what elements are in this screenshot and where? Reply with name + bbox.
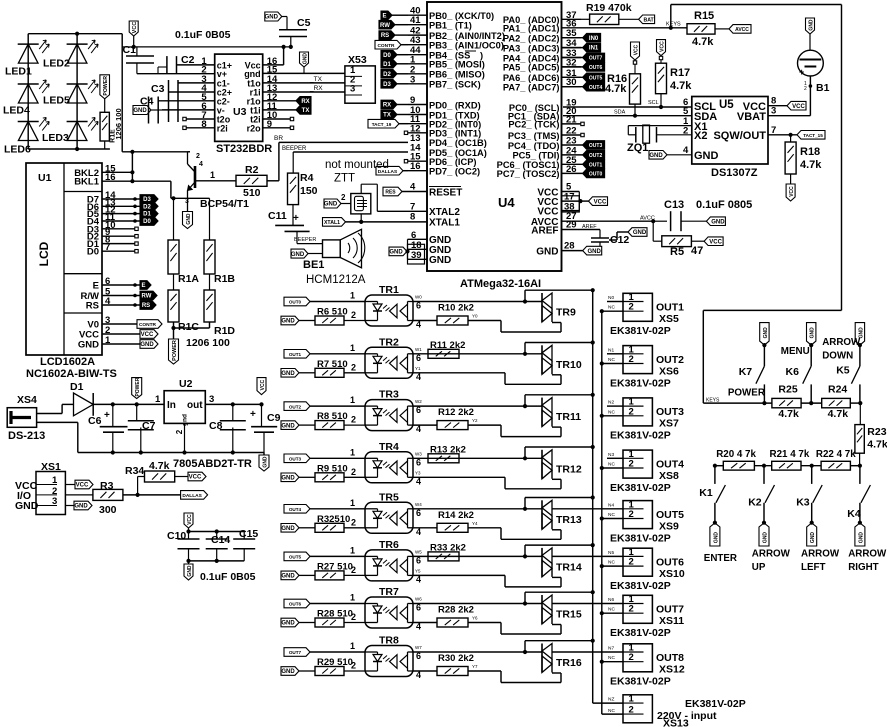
svg-text:VCC: VCC xyxy=(633,44,639,55)
svg-text:R5: R5 xyxy=(670,246,684,258)
svg-text:R23: R23 xyxy=(867,426,886,438)
optocoupler TR8 xyxy=(365,635,413,677)
svg-text:XS4: XS4 xyxy=(17,394,37,406)
svg-text:ARROW: ARROW xyxy=(848,549,887,560)
svg-text:GND: GND xyxy=(281,423,295,429)
svg-text:GND: GND xyxy=(187,565,193,577)
label 0.1uF 0805 xyxy=(696,199,752,211)
svg-text:39: 39 xyxy=(411,250,422,261)
svg-text:PC3_ (TMS): PC3_ (TMS) xyxy=(508,131,560,141)
svg-text:N7: N7 xyxy=(608,646,614,652)
svg-text:28: 28 xyxy=(564,241,575,252)
net tag D0 (PB4) xyxy=(381,50,408,59)
power tag AVCC (R15) xyxy=(715,25,751,34)
svg-text:2: 2 xyxy=(804,86,807,92)
wire TR14 T2 to bus xyxy=(525,543,595,556)
svg-text:C9: C9 xyxy=(267,412,281,424)
net tag RES (RESET) xyxy=(383,182,462,199)
U4 VCC pins 5/17/38 xyxy=(537,182,582,218)
power tag POWER (R1C) xyxy=(169,328,179,364)
svg-text:NC: NC xyxy=(608,462,615,468)
label EK381V-02P (XS5) xyxy=(610,325,671,337)
svg-text:EK381V-02P: EK381V-02P xyxy=(610,627,671,639)
svg-text:GND: GND xyxy=(302,53,308,65)
svg-text:BR: BR xyxy=(274,135,283,142)
svg-text:E: E xyxy=(93,281,99,292)
svg-text:PD4_ (OC1B): PD4_ (OC1B) xyxy=(429,138,487,148)
resistor R6 (R6 510) xyxy=(315,307,365,326)
svg-text:TR7: TR7 xyxy=(379,586,399,598)
LED LED3 xyxy=(42,118,98,144)
svg-text:XS13: XS13 xyxy=(663,718,689,727)
svg-text:2: 2 xyxy=(683,126,688,137)
ground tag GND (power rail) xyxy=(259,453,269,472)
svg-text:XTAL1: XTAL1 xyxy=(324,220,340,226)
wire XTAL1 pin xyxy=(408,212,460,229)
svg-text:1: 1 xyxy=(350,641,355,651)
label POWER (K7) xyxy=(728,387,765,398)
resistor R1C xyxy=(168,274,199,333)
triac TR10 xyxy=(542,345,582,374)
svg-text:C8: C8 xyxy=(209,420,223,432)
svg-text:NZ: NZ xyxy=(608,697,614,703)
label DS1307Z xyxy=(711,167,758,179)
svg-text:TR10: TR10 xyxy=(556,359,582,371)
wire TR16 T2 to bus xyxy=(525,639,595,652)
label ARROW RIGHT (K4) xyxy=(848,549,887,573)
svg-text:1: 1 xyxy=(210,170,215,180)
svg-text:2: 2 xyxy=(629,509,634,520)
svg-text:U3: U3 xyxy=(233,106,247,118)
svg-text:N6: N6 xyxy=(608,597,614,603)
wire TR2 pin6 xyxy=(413,347,542,363)
svg-text:ZTT: ZTT xyxy=(334,173,355,185)
speaker BE1 HCM1212A xyxy=(303,229,365,271)
svg-text:R20 4 7k: R20 4 7k xyxy=(716,449,756,460)
wire LED column left xyxy=(27,34,29,149)
resistor R10 (R10 2k2) xyxy=(437,303,474,326)
power tag VCC (R16) xyxy=(631,42,640,74)
svg-text:OUT3: OUT3 xyxy=(656,406,684,418)
svg-text:GND: GND xyxy=(78,340,99,351)
wire SDA xyxy=(563,106,692,117)
svg-text:C3: C3 xyxy=(151,83,165,95)
svg-text:R19 470k: R19 470k xyxy=(586,2,632,14)
net tag OUT7 (PA) xyxy=(562,53,605,62)
U1 pin names and numbers xyxy=(74,163,116,350)
svg-text:6: 6 xyxy=(416,405,421,415)
svg-text:TR15: TR15 xyxy=(556,609,582,621)
svg-text:2: 2 xyxy=(351,661,356,671)
U4 AVCC pin 27 xyxy=(531,211,655,228)
wire U1 data stub xyxy=(102,235,138,238)
connector XS11 (OUT7) xyxy=(552,594,652,623)
svg-text:2: 2 xyxy=(351,612,356,622)
svg-text:POWER: POWER xyxy=(135,377,141,396)
svg-text:D2: D2 xyxy=(383,72,391,78)
svg-text:29: 29 xyxy=(566,220,577,231)
ground tag GND (K2) xyxy=(759,523,769,546)
svg-text:LED3: LED3 xyxy=(42,132,69,144)
svg-text:OUT6: OUT6 xyxy=(589,65,603,71)
label ZTT xyxy=(334,173,355,185)
wire U2 out rail xyxy=(205,402,263,406)
wire U3 pin16 to VCC rail xyxy=(263,45,286,65)
svg-text:CONTR: CONTR xyxy=(377,43,395,49)
svg-text:NC: NC xyxy=(608,409,615,415)
net tag OUT5 (PA) xyxy=(562,73,605,82)
svg-text:GND: GND xyxy=(536,246,558,257)
capacitor C1 xyxy=(123,44,291,74)
svg-text:C7: C7 xyxy=(142,420,156,432)
svg-text:2: 2 xyxy=(629,652,634,663)
svg-text:TR12: TR12 xyxy=(556,463,582,475)
svg-text:NC1602A-BIW-TS: NC1602A-BIW-TS xyxy=(26,368,117,380)
svg-text:XS8: XS8 xyxy=(659,470,679,482)
triac TR15 xyxy=(542,595,582,624)
svg-text:R9 510: R9 510 xyxy=(317,463,348,474)
resistor R16 xyxy=(605,73,641,118)
wire TR4 pin6 xyxy=(413,451,542,467)
wire keys upper bus xyxy=(703,401,862,405)
svg-text:SCL: SCL xyxy=(648,100,659,106)
svg-text:3: 3 xyxy=(185,198,189,205)
svg-text:8: 8 xyxy=(410,212,415,223)
battery B1 xyxy=(798,50,830,94)
resistor R13 (R13 2k2) xyxy=(428,444,466,463)
svg-text:RX: RX xyxy=(301,99,309,105)
svg-text:OUT2: OUT2 xyxy=(656,354,684,366)
resistor R28 (R28 510) xyxy=(315,609,365,628)
wire U5 SQW pin7 xyxy=(768,125,797,137)
triac TR11 xyxy=(542,398,581,427)
svg-text:GND: GND xyxy=(265,15,279,21)
svg-text:PB2_ (AIN0/INT2): PB2_ (AIN0/INT2) xyxy=(429,31,505,41)
svg-text:OUT3: OUT3 xyxy=(589,143,603,149)
wire TR8 pin6 xyxy=(413,645,542,661)
resistor R30 (R30 2k2) xyxy=(437,653,474,676)
resistor R20 xyxy=(716,449,756,470)
svg-text:RS: RS xyxy=(142,303,150,309)
net tag OUT2 (PC) xyxy=(562,151,605,160)
svg-text:VCC: VCC xyxy=(132,22,138,34)
wire PD6 stub xyxy=(404,160,407,163)
power tag VCC (top) xyxy=(122,21,138,47)
svg-text:EK381V-02P: EK381V-02P xyxy=(610,377,671,389)
svg-text:E: E xyxy=(141,283,145,289)
resistor R4 xyxy=(288,152,318,205)
svg-text:EK381V-02P: EK381V-02P xyxy=(610,580,671,592)
net tag TX (PD1) xyxy=(381,110,408,119)
optocoupler TR4 xyxy=(365,441,413,483)
ground tag GND (U3 v-) xyxy=(133,106,162,115)
svg-text:DS-213: DS-213 xyxy=(8,430,45,442)
svg-text:GND: GND xyxy=(711,219,725,225)
resistor R32510 (R32510) xyxy=(315,514,365,533)
svg-text:GND: GND xyxy=(429,255,451,266)
voltage regulator U2 7805 xyxy=(164,378,214,453)
svg-text:Y6: Y6 xyxy=(472,616,478,621)
wire TR11 T2 to bus xyxy=(525,393,595,406)
svg-text:Y5: Y5 xyxy=(415,568,421,573)
svg-text:LEFT: LEFT xyxy=(801,562,826,573)
svg-text:N1: N1 xyxy=(608,347,614,353)
ground tag GND (C5) xyxy=(265,12,287,30)
svg-text:DALLAS: DALLAS xyxy=(378,169,398,175)
svg-text:OUT1: OUT1 xyxy=(656,302,684,314)
optocoupler TR2 xyxy=(365,336,413,378)
svg-text:D0: D0 xyxy=(87,247,99,258)
svg-text:GND: GND xyxy=(281,621,295,627)
svg-text:RX: RX xyxy=(383,103,391,109)
wire U3 pin5 xyxy=(158,100,215,102)
wire C10 top rail xyxy=(189,529,245,533)
svg-text:BKL1: BKL1 xyxy=(74,177,100,188)
power tag VCC (U4) xyxy=(580,197,607,206)
capacitor C4 xyxy=(140,96,158,124)
svg-text:PA5_ (ADC5): PA5_ (ADC5) xyxy=(503,63,560,73)
svg-text:4: 4 xyxy=(416,372,421,382)
svg-text:AVCC: AVCC xyxy=(735,27,749,33)
svg-text:1: 1 xyxy=(629,694,635,705)
svg-text:AREF: AREF xyxy=(582,224,597,230)
wire TR7 pin6 xyxy=(413,597,542,613)
label 0.1uF 0B05 xyxy=(175,29,231,41)
svg-text:EK381V-02P: EK381V-02P xyxy=(610,482,671,494)
svg-text:2: 2 xyxy=(351,415,356,425)
svg-text:N3: N3 xyxy=(608,452,614,458)
wire C11 to BE1 xyxy=(294,231,323,243)
svg-text:In: In xyxy=(167,400,176,411)
connector XS10 (OUT6) xyxy=(552,547,652,576)
wire TR6 pin6 xyxy=(413,549,542,565)
net tag BAT xyxy=(639,15,655,24)
optocoupler TR3 xyxy=(365,389,413,431)
power tag VCC (R18) xyxy=(786,174,795,201)
svg-text:R27 510: R27 510 xyxy=(317,561,353,572)
ground tag GND (ZTT) xyxy=(324,193,351,208)
svg-text:TR3: TR3 xyxy=(379,389,399,401)
svg-text:OUT5: OUT5 xyxy=(589,75,603,81)
svg-text:OUT4: OUT4 xyxy=(589,85,603,91)
svg-text:47: 47 xyxy=(691,245,703,257)
svg-text:LED4: LED4 xyxy=(3,105,30,117)
wire TR13 T2 to bus xyxy=(525,495,595,508)
triac TR14 xyxy=(542,548,582,577)
svg-text:4: 4 xyxy=(416,424,421,434)
U4 right PC pins xyxy=(497,98,585,180)
svg-text:R1C: R1C xyxy=(178,321,199,333)
svg-text:PB6_ (MISO): PB6_ (MISO) xyxy=(429,70,485,80)
svg-text:VCC: VCC xyxy=(594,199,607,205)
svg-text:6: 6 xyxy=(416,651,421,661)
net tag OUT3 (row 4) xyxy=(284,447,365,462)
svg-text:4.7k: 4.7k xyxy=(778,408,799,420)
svg-text:ARROW: ARROW xyxy=(822,337,861,348)
svg-text:2: 2 xyxy=(175,429,184,434)
optocoupler TR1 xyxy=(365,284,413,326)
power tag POWER (rail) xyxy=(132,377,142,398)
connector XS1 xyxy=(15,461,65,515)
svg-text:ENTER: ENTER xyxy=(704,553,737,564)
wire R2 to BR xyxy=(267,142,279,180)
svg-text:0.1uF 0B05: 0.1uF 0B05 xyxy=(175,29,231,41)
svg-text:4.7k: 4.7k xyxy=(605,83,627,95)
svg-text:PC4_ (TDO): PC4_ (TDO) xyxy=(508,141,560,151)
net tag D1 (U1) xyxy=(102,209,158,218)
svg-text:TR9: TR9 xyxy=(556,307,576,319)
svg-text:TR2: TR2 xyxy=(379,336,399,348)
svg-text:OUT2: OUT2 xyxy=(289,404,302,409)
net tag OUT1 (PC) xyxy=(562,160,605,169)
svg-text:BCP54/T1: BCP54/T1 xyxy=(200,198,249,210)
svg-text:RIGHT: RIGHT xyxy=(848,562,878,573)
svg-text:RESET: RESET xyxy=(429,187,462,198)
wire XTAL2 xyxy=(377,210,408,212)
svg-text:PA1_ (ADC1): PA1_ (ADC1) xyxy=(503,24,560,34)
svg-text:D1: D1 xyxy=(383,62,391,68)
ground tag GND (X53) xyxy=(300,52,309,73)
wire U3 pin14 to X53 pin2 (_TX) xyxy=(263,76,345,83)
svg-text:R4: R4 xyxy=(300,172,314,184)
ground tag GND (U4 left) xyxy=(389,247,407,256)
capacitor C12 xyxy=(591,230,629,247)
svg-text:RES: RES xyxy=(385,190,396,196)
svg-text:510: 510 xyxy=(243,187,261,199)
svg-text:R30 2k2: R30 2k2 xyxy=(438,653,474,664)
svg-text:PD7_ (OC2): PD7_ (OC2) xyxy=(429,167,480,177)
connector XS6 (OUT2) xyxy=(600,344,653,373)
svg-text:K6: K6 xyxy=(786,366,800,378)
net tag D3 (PB7) xyxy=(381,80,408,89)
capacitor C6 xyxy=(88,404,128,452)
wire 220V bus neutral xyxy=(602,311,623,714)
resistor R1D xyxy=(204,274,235,337)
wire LED right vertical xyxy=(121,34,123,152)
svg-text:GND: GND xyxy=(281,319,295,325)
svg-text:U1: U1 xyxy=(38,172,52,184)
triac TR12 xyxy=(542,450,582,479)
switch K1 xyxy=(699,466,725,525)
connector XS7 (OUT3) xyxy=(600,397,653,426)
capacitor C9 xyxy=(250,404,281,452)
svg-text:C13: C13 xyxy=(664,199,684,211)
ground tag GND (K6) xyxy=(807,323,816,346)
svg-text:TR6: TR6 xyxy=(379,539,399,551)
svg-text:BEEPER: BEEPER xyxy=(282,146,307,152)
ground tag GND (row 4) xyxy=(281,473,315,482)
svg-text:C1: C1 xyxy=(123,44,137,56)
svg-text:TR11: TR11 xyxy=(556,411,581,423)
label OUT7/XS11 xyxy=(656,604,684,628)
svg-text:VCC: VCC xyxy=(76,483,89,489)
svg-text:C10: C10 xyxy=(167,530,186,542)
ground tag GND (Q1) xyxy=(183,212,193,229)
svg-text:2: 2 xyxy=(351,565,356,575)
svg-text:OUT8: OUT8 xyxy=(656,652,684,664)
ground tag GND (K1) xyxy=(710,523,720,546)
svg-text:2: 2 xyxy=(196,153,200,160)
svg-text:4: 4 xyxy=(416,320,421,330)
ground tag GND (BE1) xyxy=(291,249,323,258)
svg-text:U2: U2 xyxy=(179,378,193,390)
svg-text:R7 510: R7 510 xyxy=(317,359,348,370)
svg-text:OUT7: OUT7 xyxy=(589,56,603,62)
svg-text:4: 4 xyxy=(410,182,416,193)
net tag XTAL1 xyxy=(323,218,409,227)
wire BKL1 to resistors xyxy=(171,181,210,200)
svg-text:D3: D3 xyxy=(383,82,391,88)
svg-text:IN0: IN0 xyxy=(589,36,599,42)
U4 GND pins 6/18/39 xyxy=(405,230,451,266)
label EK381V-02P (XS11) xyxy=(610,627,671,639)
net KEYS label xyxy=(706,397,720,403)
LED LED6 xyxy=(4,118,49,156)
ground tag GND (row 5) xyxy=(281,524,315,533)
label 220V - input xyxy=(657,710,717,722)
label NC1602A-BIW-TS xyxy=(26,368,117,380)
svg-text:+: + xyxy=(293,213,299,224)
resistor R23 xyxy=(855,403,887,466)
ground tag GND (C10) xyxy=(184,561,193,580)
resistor R28 (R28 2k2) xyxy=(437,605,474,628)
wire U3 pin15 to X53 pin1 xyxy=(263,72,345,74)
svg-text:4.7k: 4.7k xyxy=(149,460,170,472)
triac TR13 xyxy=(542,500,582,529)
ground tag GND (row 3) xyxy=(281,421,315,430)
svg-text:1: 1 xyxy=(350,291,355,301)
wire keys lower bus xyxy=(713,464,862,468)
svg-text:0.1uF 0805: 0.1uF 0805 xyxy=(696,199,752,211)
wire net BR (PD4) xyxy=(274,135,408,142)
wire U3 pin7 stub xyxy=(183,117,215,120)
label XS13 xyxy=(663,718,689,727)
svg-text:GND: GND xyxy=(291,252,305,258)
svg-text:D0: D0 xyxy=(383,53,391,59)
svg-text:GND: GND xyxy=(281,371,295,377)
svg-text:r2i: r2i xyxy=(217,123,228,133)
svg-text:PD0_ (RXD): PD0_ (RXD) xyxy=(429,100,481,110)
svg-text:XS1: XS1 xyxy=(41,461,61,473)
label ARROW DOWN (K5) xyxy=(822,337,861,362)
svg-text:R6 510: R6 510 xyxy=(317,307,348,318)
svg-text:4.7k: 4.7k xyxy=(867,439,887,451)
svg-text:PB7_ (SCK): PB7_ (SCK) xyxy=(429,80,481,90)
label HCM1212A xyxy=(306,274,366,286)
label OUT5/XS9 xyxy=(656,509,684,533)
wire PD3 stub xyxy=(404,131,407,134)
svg-text:OUT4: OUT4 xyxy=(656,458,684,470)
svg-text:3: 3 xyxy=(410,74,415,85)
svg-text:R32510: R32510 xyxy=(317,514,350,525)
svg-text:GND: GND xyxy=(810,532,816,544)
svg-text:N5: N5 xyxy=(608,550,614,556)
label EK381V-02P (XS13) xyxy=(685,698,746,710)
svg-text:CONTR: CONTR xyxy=(139,322,157,328)
label EK381V-02P (XS6) xyxy=(610,377,671,389)
svg-text:GND: GND xyxy=(281,476,295,482)
svg-text:K3: K3 xyxy=(796,497,810,509)
label EK381V-02P (XS12) xyxy=(610,676,671,688)
wire LED array bottom rail xyxy=(28,147,110,151)
optocoupler TR7 xyxy=(365,586,413,628)
net tag RW (PB1) xyxy=(379,20,408,29)
svg-text:R29 510: R29 510 xyxy=(317,657,353,668)
svg-text:out: out xyxy=(187,400,203,411)
U4 left PB pins xyxy=(408,6,505,90)
svg-text:OUT4: OUT4 xyxy=(289,507,302,512)
net tag RX (U3 pin12) xyxy=(263,97,311,106)
